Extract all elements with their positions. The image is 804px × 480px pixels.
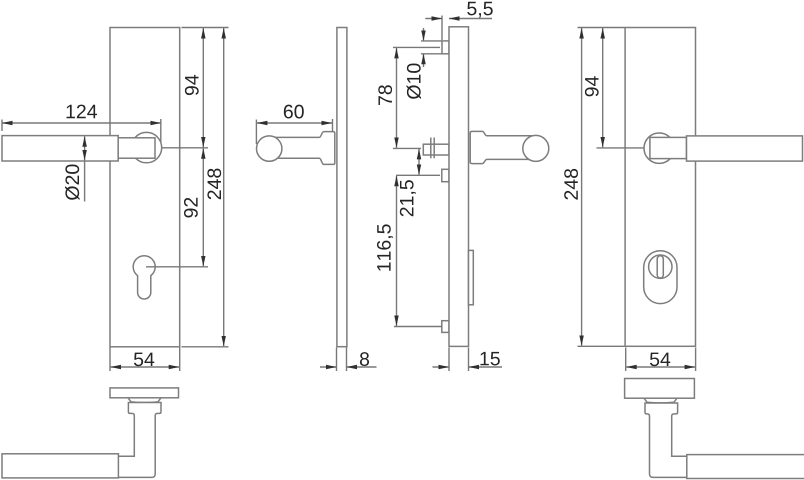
dimension Ø20 line with arrows: [84, 136, 86, 160]
extension line: plate3 left (15): [448, 348, 450, 372]
extension line: handle centre (view1): [162, 147, 208, 149]
label 15: [480, 352, 499, 366]
spindle washer line 2: [433, 138, 435, 159]
label 54 (view1): [134, 353, 154, 367]
dimension 54 line (view1): [111, 366, 180, 368]
extension line: plate4 bottom right (54): [695, 348, 697, 372]
spindle washer line 1: [430, 138, 432, 159]
security rosette screw slot: [657, 256, 663, 278]
label Ø10 (rotated): [407, 64, 421, 99]
grip bar top view (outside): [687, 455, 804, 479]
extension line: Ø10 top: [421, 40, 442, 42]
dimension 5,5 right lead: [449, 18, 492, 20]
dimension 248 line (view4): [581, 28, 583, 346]
handle neck and rose flange side profile (outside): [470, 131, 536, 163]
top fixing boss: [442, 41, 449, 54]
extension line: lever left end (124): [1, 120, 3, 132]
dimension 5,5 left lead: [425, 18, 442, 20]
spindle (square) side view: [423, 144, 449, 155]
dimension 21,5 line: [418, 149, 420, 175]
dimension 124 line: [2, 122, 161, 124]
dimension 8 right lead: [347, 366, 377, 368]
label 21,5 (rotated): [400, 180, 416, 216]
extension line: plate2 right (8): [346, 348, 348, 372]
extension line: knob left tangent (60): [255, 120, 257, 145]
dimension 78 line: [396, 48, 398, 148]
bottom fixing boss: [442, 321, 449, 333]
label 124: [67, 105, 97, 119]
backplate (outside): [625, 28, 695, 347]
dimension 60 line: [257, 122, 332, 124]
dimension 15 left lead: [433, 366, 450, 368]
collar ring (inside): [128, 398, 161, 403]
extension line: Ø10 bottom: [421, 53, 442, 55]
backplate side (8mm): [337, 28, 347, 347]
dimension Ø20 tail: [84, 161, 86, 202]
label 92 (rotated): [184, 198, 198, 218]
extension line: bottom boss centre: [394, 326, 442, 328]
dimension 8 left lead: [320, 366, 337, 368]
backplate side (15mm, outside): [449, 27, 469, 347]
extension line: spindle centre: [393, 147, 421, 149]
euro profile cylinder cutout: [133, 256, 155, 299]
extension line: cylinder centre: [396, 174, 440, 176]
rose circle (inside): [131, 132, 161, 162]
dimension 92 line (view1): [202, 148, 204, 266]
label 60: [284, 105, 304, 119]
extension line: plate3 right (15): [468, 348, 470, 372]
security rosette oval: [644, 251, 677, 304]
extension line: keyhole centre (view1): [146, 266, 208, 268]
extension line: plate bottom (view1): [182, 346, 229, 348]
dimension 248 line (view1): [223, 28, 225, 346]
bearing housing and neck with bend (inside): [118, 403, 161, 478]
label 8: [360, 352, 369, 366]
extension line: rose right edge (124): [160, 119, 162, 142]
label 5,5: [467, 2, 493, 18]
label 248 (view4, rotated): [564, 169, 578, 200]
bearing housing and neck with bend (outside): [645, 403, 687, 477]
knob end of handle (side view): [257, 136, 282, 161]
extension line: plate bottom (view4): [578, 345, 625, 347]
screw centre line (top boss): [393, 46, 440, 48]
extension line: handle centre (view4): [597, 147, 645, 149]
lever grip bar (inside): [2, 136, 118, 161]
label 116,5 (rotated): [377, 224, 393, 270]
lever grip bar (outside): [687, 136, 803, 161]
label 54 (view4): [650, 353, 670, 367]
label 94 (view1, rotated): [185, 75, 199, 95]
extension line: plate top (view1): [182, 27, 229, 29]
label 248 (view1, rotated): [207, 169, 221, 200]
extension line: plate bottom left (54): [109, 348, 111, 372]
handle hub (outside): [650, 137, 687, 158]
profile cylinder protruding rear: [442, 169, 449, 181]
collar ring (outside): [644, 398, 677, 403]
rose circle (outside): [644, 133, 674, 163]
knob end of outside handle (side view): [523, 135, 549, 161]
rose disc top view (outside): [625, 379, 695, 399]
extension line: 5.5 boss rear face: [441, 16, 443, 41]
cylinder protection bump (outside face): [469, 250, 474, 304]
dimension Ø10 upper lead: [423, 28, 425, 41]
dimension Ø10 lower lead: [423, 54, 425, 67]
label 78 (rotated): [378, 85, 392, 105]
extension line: plate2 left (8): [336, 348, 338, 372]
backplate (inside): [110, 28, 180, 347]
extension line: plate bottom right (54): [179, 348, 181, 372]
dimension 94 line (view4): [602, 28, 604, 147]
extension line: plate4 bottom left (54): [625, 348, 627, 372]
label Ø20 (rotated): [65, 165, 79, 200]
dimension 116,5 line: [396, 176, 398, 326]
dimension 94 line (view1): [202, 28, 204, 147]
dimension 54 line (view4): [626, 366, 695, 368]
label 94 (view4, rotated): [585, 76, 599, 96]
handle hub (inside): [118, 138, 155, 158]
extension line: rose flange face (60): [332, 119, 334, 131]
extension line: plate top (view4): [578, 27, 625, 29]
handle neck and rose flange side profile (inside): [269, 132, 335, 165]
grip bar top view (inside): [2, 454, 118, 478]
rose disc top view (inside): [110, 388, 179, 398]
security rosette inner circle: [649, 255, 672, 278]
dimension 15 right lead: [469, 366, 503, 368]
